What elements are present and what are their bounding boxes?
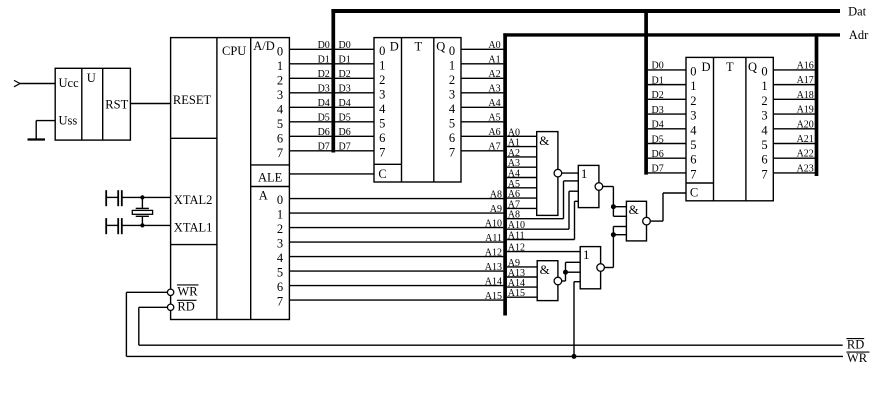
svg-text:4: 4 <box>690 123 697 137</box>
svg-text:7: 7 <box>449 145 455 159</box>
svg-text:A12: A12 <box>508 243 525 254</box>
svg-text:6: 6 <box>761 153 767 167</box>
svg-text:A1: A1 <box>488 55 500 66</box>
svg-text:A0: A0 <box>488 40 500 51</box>
svg-text:A20: A20 <box>797 119 814 130</box>
svg-text:3: 3 <box>277 88 283 102</box>
svg-text:A7: A7 <box>488 142 500 153</box>
svg-text:D1: D1 <box>652 75 664 86</box>
svg-text:0: 0 <box>449 44 455 58</box>
svg-text:A8: A8 <box>490 189 502 200</box>
svg-text:A10: A10 <box>485 218 502 229</box>
svg-text:2: 2 <box>277 222 283 236</box>
svg-text:D1: D1 <box>318 55 330 66</box>
svg-text:D6: D6 <box>318 127 330 138</box>
svg-text:A17: A17 <box>797 75 814 86</box>
svg-text:4: 4 <box>761 123 768 137</box>
svg-text:Adr: Adr <box>849 28 869 42</box>
svg-text:A19: A19 <box>797 105 814 116</box>
svg-text:A11: A11 <box>508 231 525 242</box>
svg-text:D7: D7 <box>339 142 351 153</box>
svg-text:U: U <box>87 71 96 85</box>
svg-text:D1: D1 <box>339 55 351 66</box>
svg-text:D5: D5 <box>318 113 330 124</box>
svg-text:D7: D7 <box>318 142 330 153</box>
svg-text:3: 3 <box>761 109 767 123</box>
svg-text:2: 2 <box>277 73 283 87</box>
svg-text:A11: A11 <box>485 233 502 244</box>
svg-text:RESET: RESET <box>173 93 212 107</box>
svg-text:D3: D3 <box>318 84 330 95</box>
svg-text:6: 6 <box>379 131 385 145</box>
svg-text:0: 0 <box>690 64 696 78</box>
svg-text:ALE: ALE <box>258 171 283 185</box>
svg-text:2: 2 <box>449 73 455 87</box>
svg-text:D4: D4 <box>652 120 664 131</box>
svg-text:Q: Q <box>748 60 757 74</box>
svg-text:A5: A5 <box>488 113 500 124</box>
svg-text:&: & <box>629 202 639 217</box>
svg-text:D5: D5 <box>339 113 351 124</box>
svg-text:4: 4 <box>277 251 284 265</box>
svg-text:0: 0 <box>277 44 283 58</box>
svg-text:1: 1 <box>583 247 590 262</box>
svg-text:C: C <box>690 186 698 200</box>
svg-text:WR: WR <box>847 351 868 365</box>
svg-text:A/D: A/D <box>253 39 275 53</box>
svg-text:5: 5 <box>277 117 283 131</box>
svg-text:Dat: Dat <box>848 4 867 18</box>
svg-text:Uss: Uss <box>59 114 78 128</box>
svg-text:Ucc: Ucc <box>59 76 80 90</box>
svg-text:6: 6 <box>690 153 696 167</box>
svg-text:D0: D0 <box>652 61 664 72</box>
svg-text:1: 1 <box>379 58 385 72</box>
svg-text:A6: A6 <box>488 127 500 138</box>
svg-text:A9: A9 <box>490 204 502 215</box>
svg-text:D5: D5 <box>652 134 664 145</box>
svg-text:WR: WR <box>177 284 198 298</box>
svg-text:T: T <box>414 40 422 54</box>
svg-text:A2: A2 <box>488 69 500 80</box>
svg-text:6: 6 <box>277 131 283 145</box>
svg-text:A15: A15 <box>508 288 525 299</box>
svg-text:A13: A13 <box>485 262 502 273</box>
svg-text:D2: D2 <box>652 90 664 101</box>
svg-text:A18: A18 <box>797 90 814 101</box>
svg-text:4: 4 <box>379 102 386 116</box>
svg-text:1: 1 <box>761 79 767 93</box>
svg-text:5: 5 <box>449 116 455 130</box>
svg-text:RST: RST <box>105 98 128 112</box>
svg-text:7: 7 <box>690 167 696 181</box>
svg-text:3: 3 <box>379 87 385 101</box>
svg-text:0: 0 <box>277 193 283 207</box>
svg-text:1: 1 <box>277 59 283 73</box>
svg-text:&: & <box>540 262 550 277</box>
svg-text:C: C <box>378 167 386 181</box>
svg-text:D2: D2 <box>318 69 330 80</box>
svg-text:1: 1 <box>690 79 696 93</box>
svg-text:A12: A12 <box>485 247 502 258</box>
svg-text:D7: D7 <box>652 164 664 175</box>
svg-text:A15: A15 <box>485 291 502 302</box>
svg-text:&: & <box>539 133 549 148</box>
svg-text:A8: A8 <box>508 210 520 221</box>
svg-text:D3: D3 <box>652 105 664 116</box>
svg-text:D: D <box>702 60 711 74</box>
svg-text:RD: RD <box>847 338 864 352</box>
svg-text:1: 1 <box>581 166 588 181</box>
svg-text:7: 7 <box>379 145 385 159</box>
svg-text:2: 2 <box>379 73 385 87</box>
svg-text:5: 5 <box>761 138 767 152</box>
svg-text:A21: A21 <box>797 134 814 145</box>
svg-text:1: 1 <box>449 58 455 72</box>
svg-text:T: T <box>726 60 734 74</box>
svg-text:7: 7 <box>277 146 283 160</box>
svg-text:A4: A4 <box>488 98 500 109</box>
svg-text:D6: D6 <box>339 127 351 138</box>
svg-text:A3: A3 <box>488 84 500 95</box>
svg-text:5: 5 <box>690 138 696 152</box>
svg-text:5: 5 <box>277 266 283 280</box>
svg-text:A: A <box>259 189 268 203</box>
svg-text:D4: D4 <box>318 98 330 109</box>
svg-text:0: 0 <box>379 44 385 58</box>
svg-text:A23: A23 <box>797 163 814 174</box>
svg-text:7: 7 <box>761 167 767 181</box>
svg-text:XTAL2: XTAL2 <box>174 193 213 207</box>
svg-text:2: 2 <box>761 94 767 108</box>
svg-text:6: 6 <box>277 280 283 294</box>
svg-text:4: 4 <box>277 102 284 116</box>
svg-text:A16: A16 <box>797 60 814 71</box>
svg-text:3: 3 <box>690 109 696 123</box>
svg-text:7: 7 <box>277 295 283 309</box>
svg-text:CPU: CPU <box>222 44 246 58</box>
svg-text:3: 3 <box>277 237 283 251</box>
svg-text:Q: Q <box>436 40 445 54</box>
svg-text:D2: D2 <box>339 69 351 80</box>
svg-text:XTAL1: XTAL1 <box>174 221 213 235</box>
svg-text:2: 2 <box>690 94 696 108</box>
svg-text:A22: A22 <box>797 149 814 160</box>
svg-text:3: 3 <box>449 87 455 101</box>
svg-text:0: 0 <box>761 65 767 79</box>
svg-text:D4: D4 <box>339 98 351 109</box>
svg-text:5: 5 <box>379 116 385 130</box>
svg-text:4: 4 <box>449 102 456 116</box>
svg-text:D: D <box>390 39 399 53</box>
svg-text:1: 1 <box>277 208 283 222</box>
svg-text:D3: D3 <box>339 84 351 95</box>
svg-text:D6: D6 <box>652 149 664 160</box>
svg-text:A14: A14 <box>485 276 502 287</box>
svg-text:RD: RD <box>177 300 194 314</box>
svg-text:D0: D0 <box>318 40 330 51</box>
svg-text:6: 6 <box>449 131 455 145</box>
svg-text:D0: D0 <box>339 40 351 51</box>
